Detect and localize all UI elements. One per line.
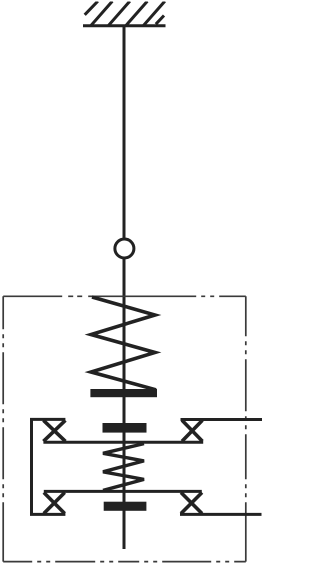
bar: bottom plate xyxy=(104,502,147,511)
frame box left edge (phantom) xyxy=(2,296,4,561)
roller guide X bottom-right xyxy=(181,493,202,514)
frame box right edge (phantom) xyxy=(245,296,247,561)
ceiling line xyxy=(83,24,166,27)
left bracket xyxy=(32,419,66,514)
frame box top edge (phantom) xyxy=(3,295,246,297)
small spring xyxy=(103,444,144,491)
inner guide line bottom xyxy=(44,490,202,493)
fixed support hatching xyxy=(85,1,165,26)
right outer line bottom xyxy=(180,513,262,516)
roller guide X top-right xyxy=(182,420,202,441)
roller guide X bottom-left xyxy=(44,493,65,514)
roller guide X top-left xyxy=(43,420,65,441)
wire: lower rod xyxy=(123,258,126,549)
joint circle xyxy=(115,239,134,258)
right outer line top xyxy=(181,418,263,421)
big spring xyxy=(91,297,156,390)
bar: upper plate xyxy=(90,389,157,397)
frame box bottom edge (phantom) xyxy=(3,561,246,563)
bar: middle plate xyxy=(103,423,147,433)
wire: upper rod xyxy=(123,26,126,239)
inner guide line top xyxy=(43,441,203,444)
